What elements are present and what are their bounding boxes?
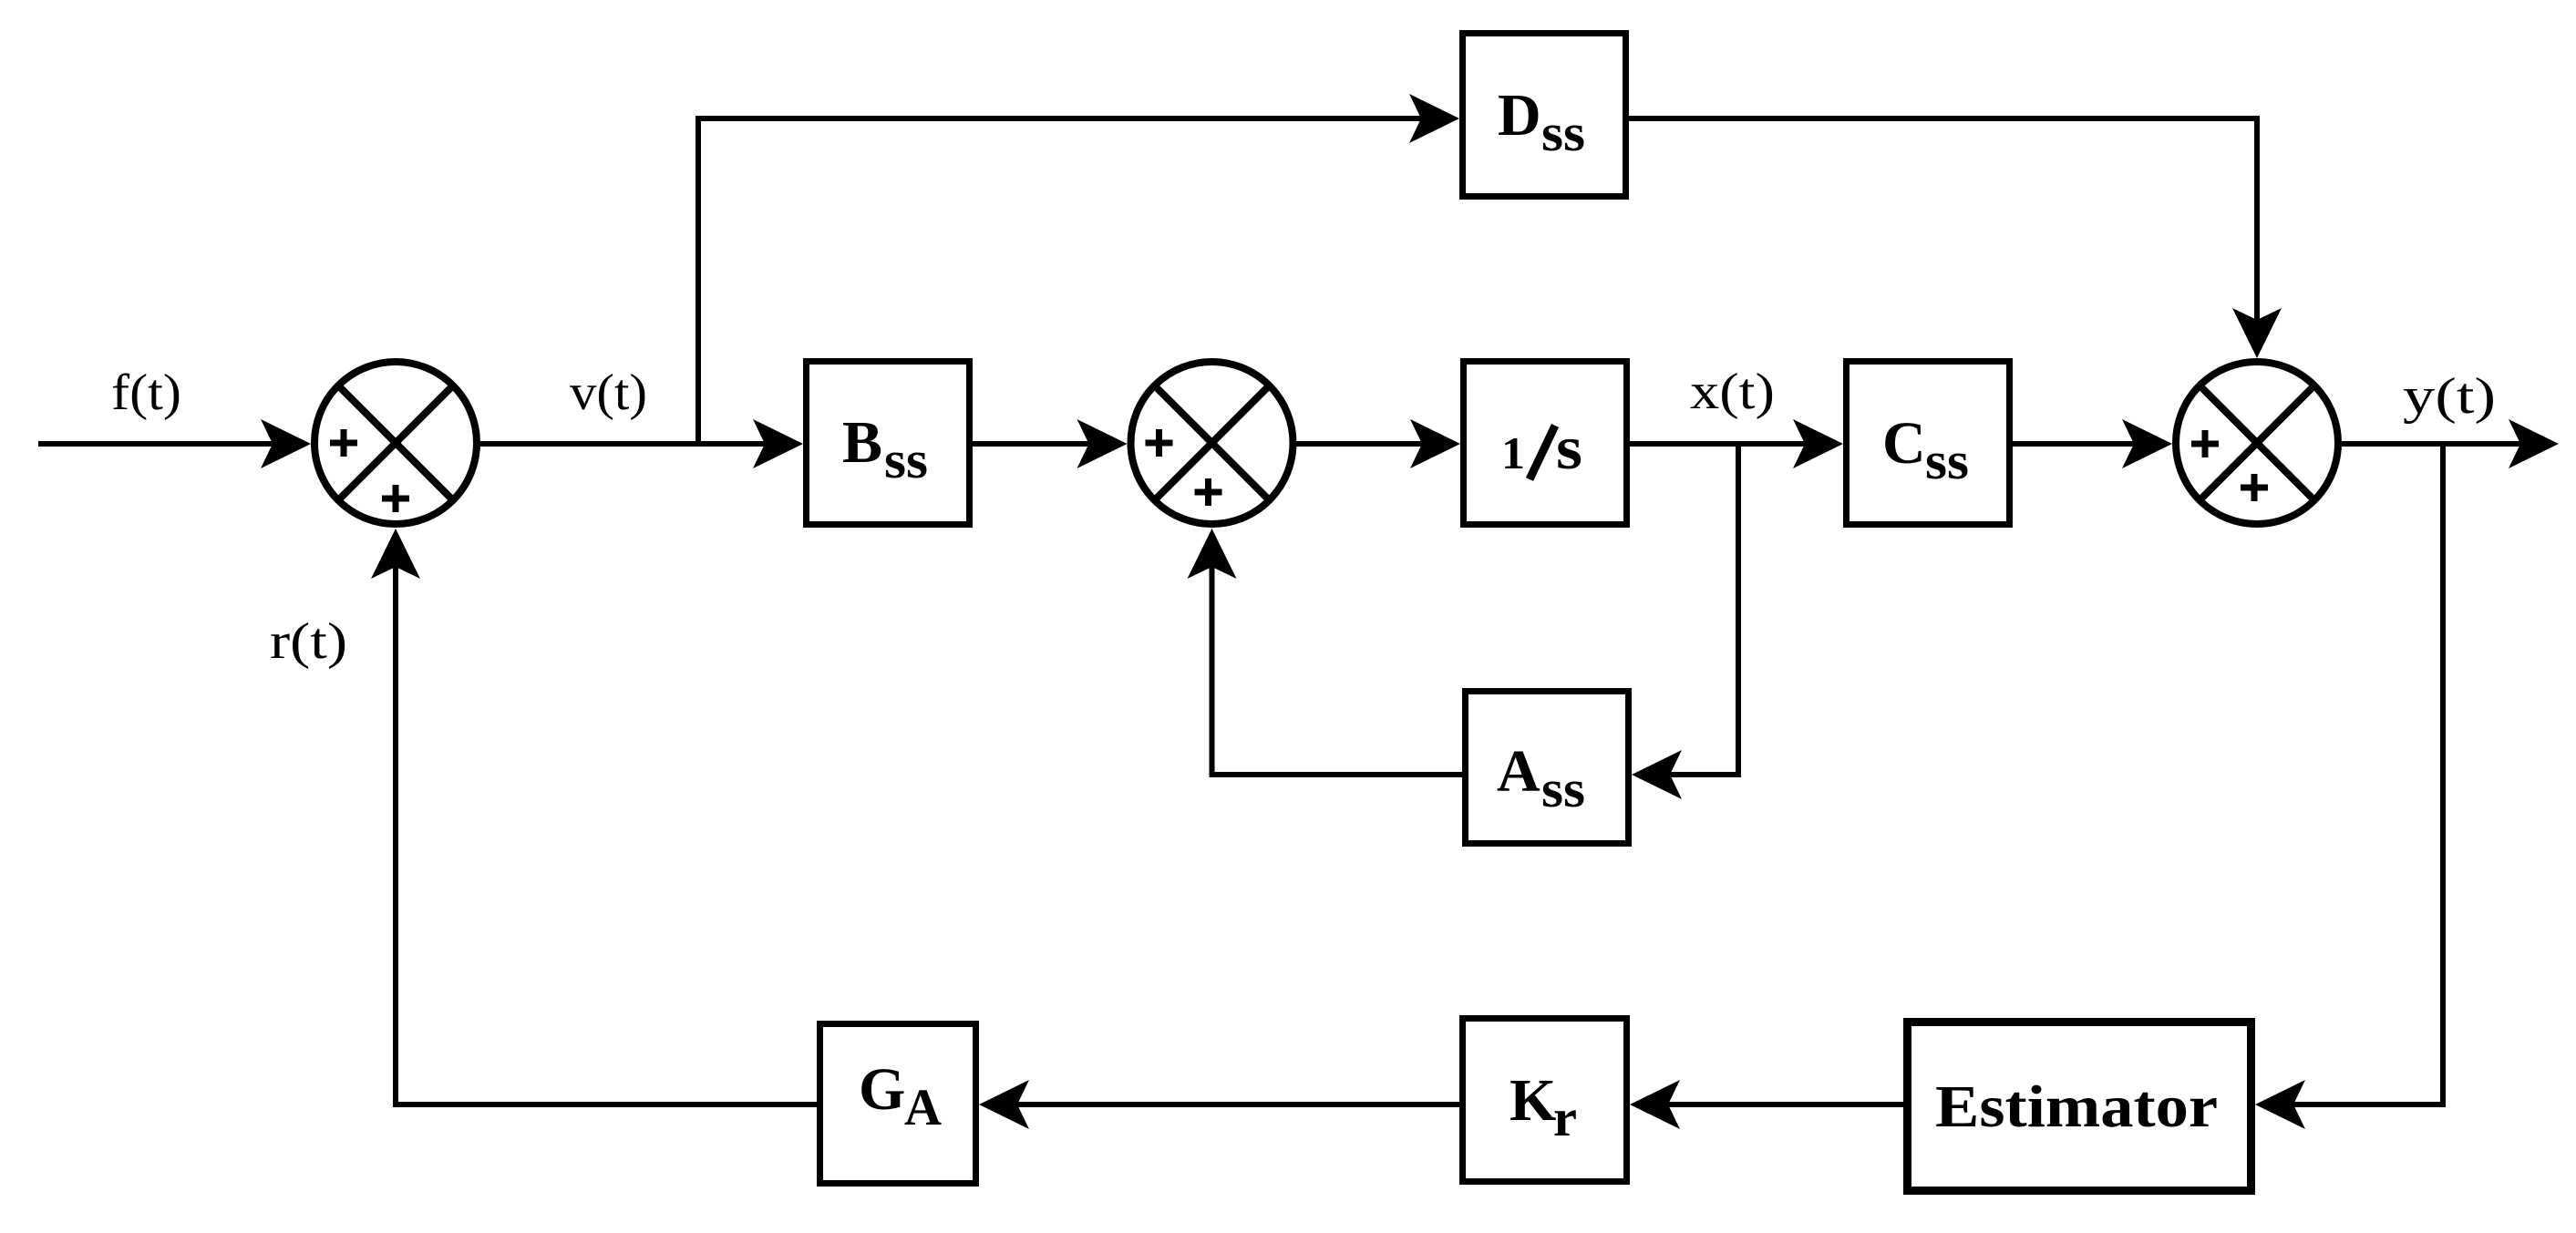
svg-text:D: D	[1498, 82, 1541, 149]
svg-text:ss: ss	[1541, 759, 1585, 818]
svg-text:v(t): v(t)	[570, 365, 647, 421]
svg-text:r(t): r(t)	[270, 613, 347, 670]
svg-text:A: A	[904, 1079, 942, 1136]
svg-text:ss: ss	[884, 430, 928, 489]
svg-text:1: 1	[1501, 427, 1525, 478]
svg-text:B: B	[842, 409, 882, 476]
svg-text:x(t): x(t)	[1690, 364, 1775, 420]
svg-text:s: s	[1556, 413, 1582, 482]
svg-text:K: K	[1510, 1067, 1556, 1134]
svg-text:y(t): y(t)	[2403, 368, 2496, 425]
svg-text:A: A	[1497, 738, 1540, 805]
svg-text:ss: ss	[1541, 103, 1585, 162]
svg-text:ss: ss	[1925, 431, 1969, 490]
svg-text:Estimator: Estimator	[1935, 1074, 2218, 1140]
svg-text:G: G	[859, 1056, 905, 1123]
svg-text:C: C	[1882, 410, 1926, 477]
svg-text:r: r	[1553, 1088, 1577, 1147]
svg-text:f(t): f(t)	[111, 365, 181, 421]
